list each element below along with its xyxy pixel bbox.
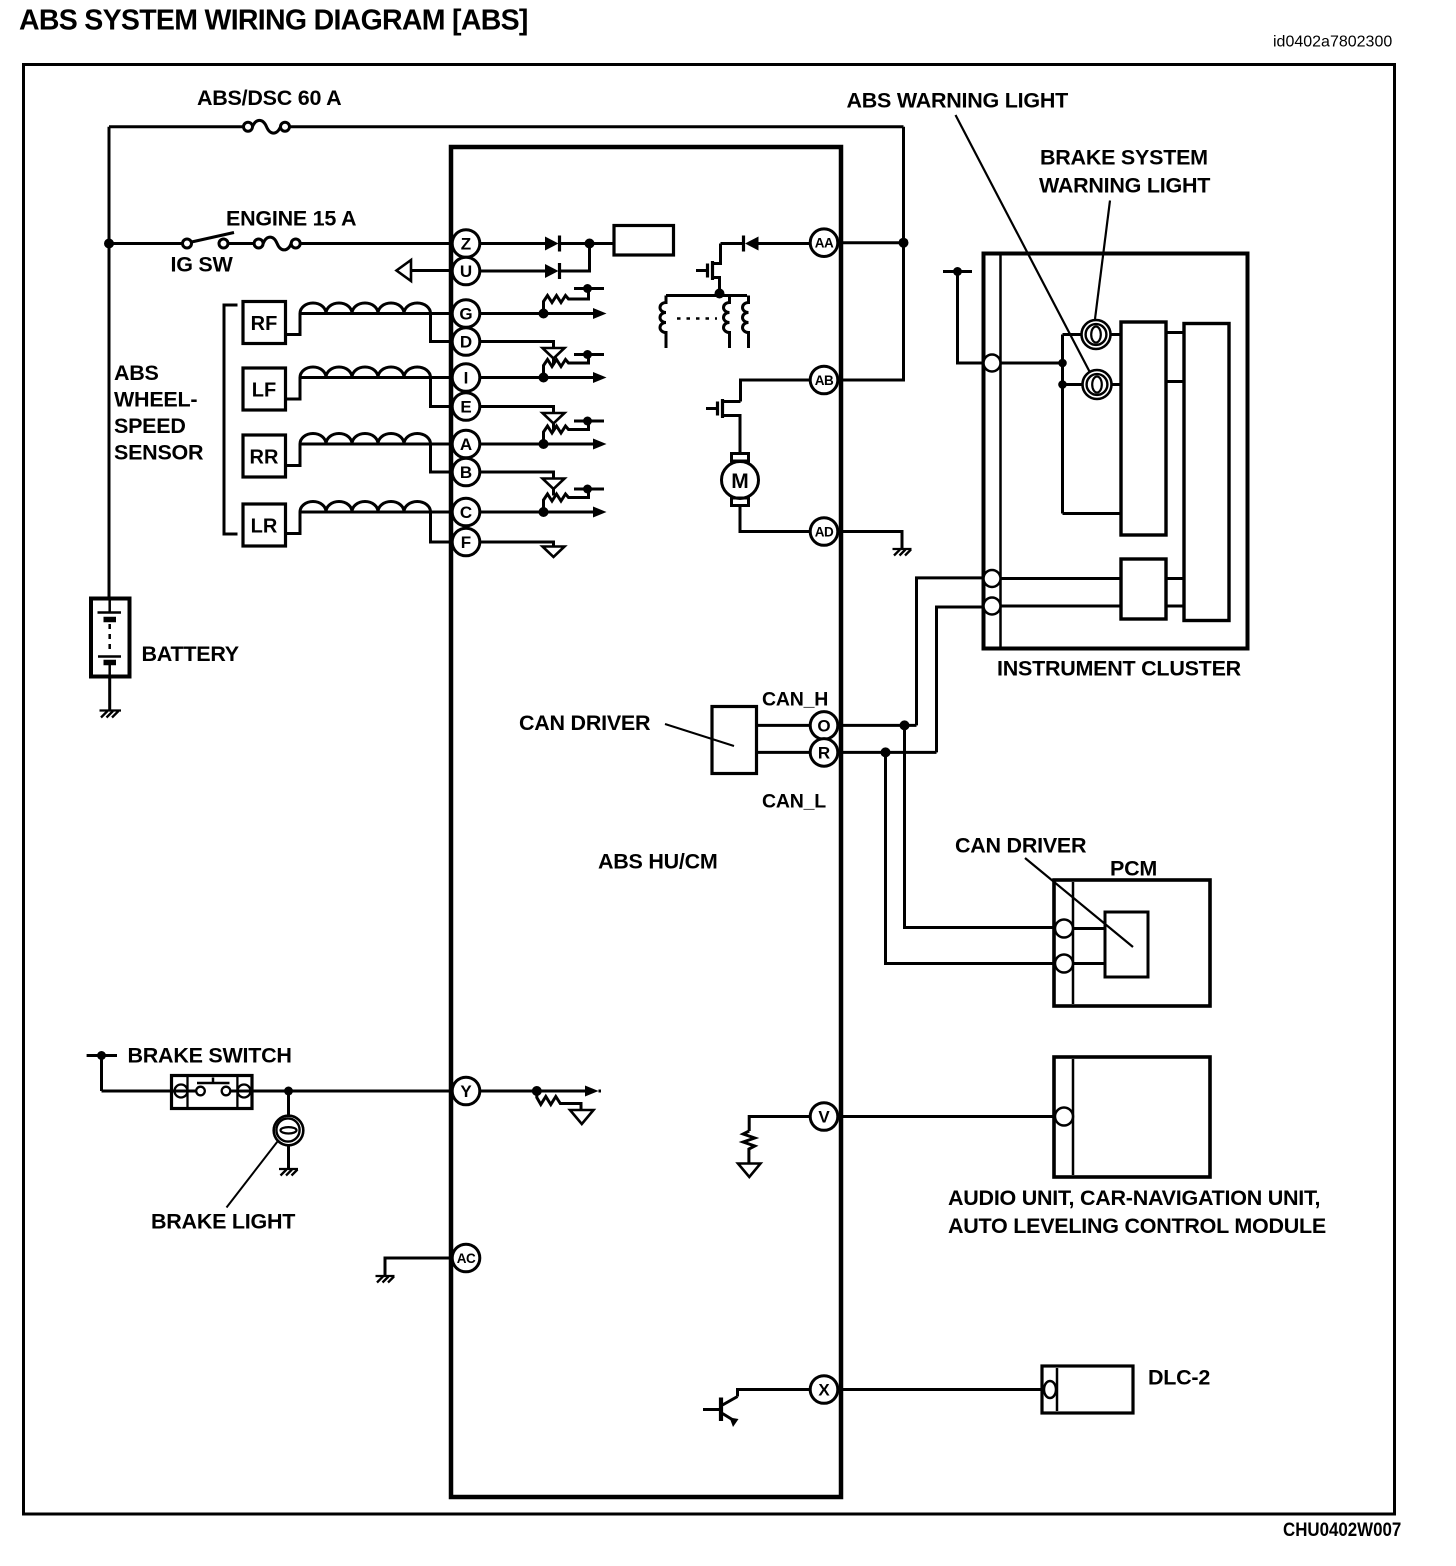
svg-text:DLC-2: DLC-2 — [1148, 1366, 1210, 1390]
ground battery — [100, 711, 122, 718]
wire pin E — [480, 407, 554, 414]
wire V internal — [749, 1117, 810, 1132]
audio connector pin — [1055, 1108, 1073, 1126]
diode zener E — [543, 413, 565, 430]
wire LR twisted pair — [300, 502, 452, 543]
svg-text:AD: AD — [815, 525, 834, 540]
wire IG row to pin Z — [300, 242, 452, 245]
fuse ENGINE 15A — [254, 237, 300, 250]
wire top feed left segment — [109, 125, 244, 128]
pin AC — [452, 1244, 480, 1272]
audio connector strip — [1072, 1059, 1075, 1175]
leader brake light — [227, 1142, 278, 1208]
wire pin C sense row — [480, 507, 607, 518]
wire top feed right segment — [290, 125, 904, 128]
wire pin I sense row — [480, 372, 607, 383]
wire cluster CAN_H link — [1166, 577, 1184, 580]
wire CAN driver to R — [757, 751, 811, 754]
wire block link top — [1166, 331, 1184, 334]
wire V to audio unit — [838, 1115, 1057, 1118]
svg-text:AUDIO UNIT, CAR-NAVIGATION UNI: AUDIO UNIT, CAR-NAVIGATION UNIT, — [948, 1186, 1320, 1210]
wire cluster CAN_L — [1001, 605, 1122, 608]
resistor C bias — [544, 489, 589, 512]
pin O — [810, 712, 838, 740]
wire AA drop vertical — [902, 127, 905, 243]
svg-text:SENSOR: SENSOR — [114, 441, 204, 465]
wire pin U diode row — [480, 270, 545, 273]
svg-text:ABS WARNING LIGHT: ABS WARNING LIGHT — [847, 89, 1069, 113]
wire AB internal — [741, 380, 811, 402]
pin A — [452, 430, 480, 458]
diode zener B — [543, 479, 565, 496]
sensor LR — [243, 504, 300, 546]
svg-text:INSTRUMENT CLUSTER: INSTRUMENT CLUSTER — [997, 657, 1242, 681]
wire cluster CAN_L link — [1166, 605, 1184, 608]
lamp brake system warning light — [1082, 320, 1111, 349]
wire RF twisted pair — [300, 303, 452, 342]
arrow pin U external — [397, 260, 453, 281]
ic CAN driver cluster — [1121, 559, 1166, 619]
leader CAN driver pcm — [1025, 858, 1133, 947]
svg-text:E: E — [460, 398, 471, 417]
pin I — [452, 364, 480, 392]
svg-text:V: V — [818, 1108, 830, 1127]
svg-text:CAN DRIVER: CAN DRIVER — [519, 711, 651, 735]
audio unit box — [1054, 1057, 1210, 1177]
svg-text:Y: Y — [460, 1082, 472, 1101]
pcm connector pin CAN_L — [1055, 955, 1073, 973]
wire RR twisted pair — [300, 434, 452, 473]
svg-text:AB: AB — [815, 373, 834, 388]
pin AB — [810, 366, 838, 394]
resistor I bias — [544, 355, 589, 378]
brake feed tap — [87, 1051, 117, 1091]
dlc2 connector strip — [1056, 1368, 1059, 1411]
dlc2 box — [1042, 1366, 1133, 1413]
svg-text:LR: LR — [251, 516, 278, 538]
wire CAN_L to PCM — [886, 752, 1057, 963]
wire lamp1 out — [1111, 333, 1122, 336]
wire X to DLC-2 — [838, 1388, 1043, 1391]
pin Y — [452, 1077, 480, 1105]
transistor Q3 DLC — [703, 1390, 810, 1428]
transistor Q2 motor FET — [706, 399, 741, 454]
svg-text:G: G — [459, 305, 472, 324]
wire junction to brake light — [287, 1091, 290, 1116]
ground pin V — [738, 1164, 761, 1178]
svg-text:A: A — [460, 435, 472, 454]
wire brake light to ground — [287, 1145, 290, 1168]
svg-text:RF: RF — [251, 313, 278, 335]
leader ABS warning light — [956, 115, 1090, 372]
resistor Y pulldown — [537, 1091, 581, 1110]
svg-text:BRAKE SYSTEM: BRAKE SYSTEM — [1040, 146, 1208, 170]
wire pin Y internal — [480, 1086, 601, 1097]
svg-text:O: O — [817, 716, 830, 735]
cluster connector pin CAN_H — [984, 570, 1001, 587]
wire cluster lamp feed — [1001, 335, 1067, 514]
cluster ic block1 — [1121, 322, 1166, 535]
cluster connector pin CAN_L — [984, 598, 1001, 615]
svg-text:R: R — [818, 743, 830, 762]
cluster ic block2 — [1184, 324, 1229, 621]
pin U — [452, 257, 480, 285]
svg-text:M: M — [731, 470, 749, 493]
wire pin Z diode row — [480, 242, 545, 245]
wire pin B — [480, 472, 554, 479]
wire CAN_L to cluster — [937, 607, 985, 752]
node A bias tap — [574, 417, 604, 426]
brake switch SW — [172, 1076, 253, 1109]
wire LF twisted pair — [300, 367, 452, 407]
transistor Q1 pump FET — [696, 244, 721, 294]
ic CAN driver pcm — [1105, 912, 1148, 977]
node brake light junction — [284, 1087, 293, 1096]
svg-text:CAN_L: CAN_L — [762, 791, 826, 813]
inductor valve coil left — [660, 296, 666, 349]
wire brake row left — [102, 1090, 197, 1093]
sensor LF — [243, 368, 300, 410]
ABS HU/CM box — [451, 147, 841, 1497]
wire AD to ground — [838, 532, 902, 549]
node AA junction — [899, 238, 909, 248]
ground AD — [893, 549, 912, 556]
wire pin G sense row — [480, 308, 607, 319]
svg-text:ENGINE 15 A: ENGINE 15 A — [226, 207, 356, 231]
node battery junction — [104, 239, 114, 249]
svg-text:B: B — [460, 463, 472, 482]
node relay coil junction — [715, 289, 725, 299]
svg-text:id0402a7802300: id0402a7802300 — [1273, 34, 1392, 51]
wire coil header — [666, 294, 747, 297]
battery BAT — [91, 599, 130, 677]
wire battery rail top — [108, 127, 111, 599]
pin AA — [810, 229, 838, 257]
node Z relay junction — [585, 239, 595, 249]
wire pin D — [480, 342, 554, 349]
svg-text:I: I — [464, 369, 469, 388]
pin E — [452, 393, 480, 421]
pin C — [452, 498, 480, 526]
svg-text:ABS HU/CM: ABS HU/CM — [598, 850, 718, 874]
node I bias tap — [574, 350, 604, 359]
ic CAN driver ABS — [712, 707, 757, 774]
pin AD — [810, 518, 838, 546]
svg-text:WARNING LIGHT: WARNING LIGHT — [1039, 174, 1210, 198]
sensor RR — [243, 435, 300, 477]
ground pin Y — [570, 1110, 594, 1124]
svg-text:RR: RR — [250, 447, 279, 469]
ground brake light — [279, 1169, 298, 1176]
svg-text:F: F — [461, 533, 471, 552]
pin F — [452, 528, 480, 556]
wire battery to ground — [108, 677, 111, 710]
svg-text:AA: AA — [815, 236, 834, 251]
svg-text:PCM: PCM — [1110, 857, 1157, 881]
wire block link mid — [1166, 380, 1184, 383]
lamp brake light — [274, 1116, 304, 1146]
fuse ABS/DSC 60A — [244, 120, 290, 133]
pcm box — [1054, 880, 1210, 1006]
resistor A bias — [544, 421, 589, 444]
inductor valve coil right — [743, 296, 749, 349]
svg-text:BATTERY: BATTERY — [142, 642, 239, 666]
wire IG row left — [109, 242, 183, 245]
node CAN_L junction — [881, 747, 891, 757]
wire CAN_L row — [838, 751, 937, 754]
switch IG SW — [183, 233, 235, 249]
svg-text:D: D — [460, 333, 472, 352]
svg-text:X: X — [818, 1381, 830, 1400]
wire pin A sense row — [480, 439, 607, 450]
instrument cluster box — [984, 254, 1248, 649]
wire AA to node — [838, 241, 904, 244]
node C bias tap — [574, 485, 604, 494]
pin D — [452, 328, 480, 356]
wire pin AC ground — [385, 1258, 452, 1275]
node G bias tap — [574, 284, 604, 293]
svg-text:BRAKE LIGHT: BRAKE LIGHT — [151, 1210, 295, 1234]
mechanical link dashes — [677, 317, 717, 320]
svg-text:CAN_H: CAN_H — [762, 689, 828, 711]
svg-text:AUTO LEVELING CONTROL MODULE: AUTO LEVELING CONTROL MODULE — [948, 1214, 1326, 1238]
wire CAN_H to cluster — [917, 578, 985, 726]
svg-text:WHEEL-: WHEEL- — [114, 388, 197, 412]
wire diode Z to relay — [560, 242, 615, 245]
diode AA feed — [721, 236, 811, 252]
pin B — [452, 458, 480, 486]
leader brake system warning light — [1095, 201, 1110, 320]
label BRAKE SYSTEM WARNING LIGHT — [1039, 146, 1210, 198]
diode U — [545, 263, 560, 279]
svg-text:BRAKE SWITCH: BRAKE SWITCH — [128, 1044, 292, 1068]
wire pcm CAN_L internal — [1073, 962, 1105, 965]
dlc2 connector pin — [1044, 1381, 1056, 1398]
svg-text:CAN DRIVER: CAN DRIVER — [955, 834, 1087, 858]
wire CAN driver to O — [757, 724, 811, 727]
cluster connector strip — [999, 256, 1002, 647]
svg-text:LF: LF — [252, 380, 276, 402]
pin R — [810, 739, 838, 767]
wire cluster feed bottom — [1063, 512, 1122, 515]
wire pin F — [480, 542, 554, 547]
lamp ABS warning light — [1083, 370, 1112, 399]
wire CAN_H to PCM — [905, 725, 1057, 927]
inductor valve coil mid — [724, 296, 730, 349]
pin Z — [452, 230, 480, 258]
diode Z — [545, 236, 560, 252]
wire motor to AD — [740, 506, 810, 532]
pin G — [452, 300, 480, 328]
wire AA to AB — [838, 243, 904, 380]
cluster connector pin power — [984, 355, 1001, 372]
leader CAN driver abs — [665, 724, 734, 746]
wire lamp1 feed — [1063, 333, 1082, 336]
sensor RF — [243, 302, 300, 344]
svg-text:SPEED: SPEED — [114, 414, 186, 438]
sensor group bracket — [224, 305, 238, 534]
svg-text:IG SW: IG SW — [171, 253, 234, 277]
relay box — [614, 226, 674, 256]
svg-text:ABS/DSC 60 A: ABS/DSC 60 A — [197, 86, 341, 110]
pcm connector pin CAN_H — [1055, 920, 1073, 938]
svg-text:U: U — [460, 262, 472, 281]
svg-text:CHU0402W007: CHU0402W007 — [1283, 1519, 1401, 1540]
ground pin F — [543, 547, 565, 558]
ground pin AC — [376, 1276, 395, 1283]
wire cluster CAN_H — [1001, 577, 1122, 580]
label ABS WHEEL-SPEED SENSOR — [114, 361, 204, 465]
resistor G bias — [544, 289, 589, 314]
wire lamp2 feed — [1063, 383, 1083, 386]
node CAN_H junction — [900, 720, 910, 730]
wire pcm CAN_H internal — [1073, 927, 1105, 930]
svg-text:AC: AC — [457, 1251, 476, 1266]
resistor V terminator — [743, 1131, 755, 1164]
diode zener D — [543, 348, 565, 365]
svg-text:C: C — [460, 503, 472, 522]
wire lamp2 out — [1112, 383, 1122, 386]
pin X — [810, 1376, 838, 1404]
cluster power tap — [943, 267, 985, 363]
pin V — [810, 1103, 838, 1131]
wire IG row mid — [228, 242, 254, 245]
svg-text:Z: Z — [461, 235, 471, 254]
svg-text:ABS: ABS — [114, 361, 159, 385]
svg-text:ABS SYSTEM WIRING DIAGRAM [ABS: ABS SYSTEM WIRING DIAGRAM [ABS] — [19, 5, 528, 37]
pcm connector strip — [1072, 882, 1075, 1004]
motor M pump — [722, 454, 759, 506]
wire brake row to pin Y — [231, 1090, 453, 1093]
wire CAN_H row — [838, 724, 917, 727]
wire diode U up to Z node — [560, 244, 590, 272]
